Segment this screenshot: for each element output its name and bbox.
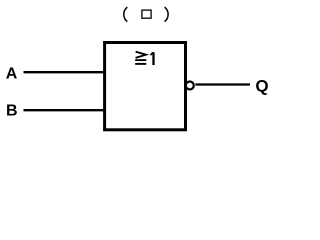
svg-text:Q: Q	[255, 76, 268, 95]
svg-text:A: A	[6, 65, 18, 82]
svg-text:B: B	[6, 103, 18, 120]
